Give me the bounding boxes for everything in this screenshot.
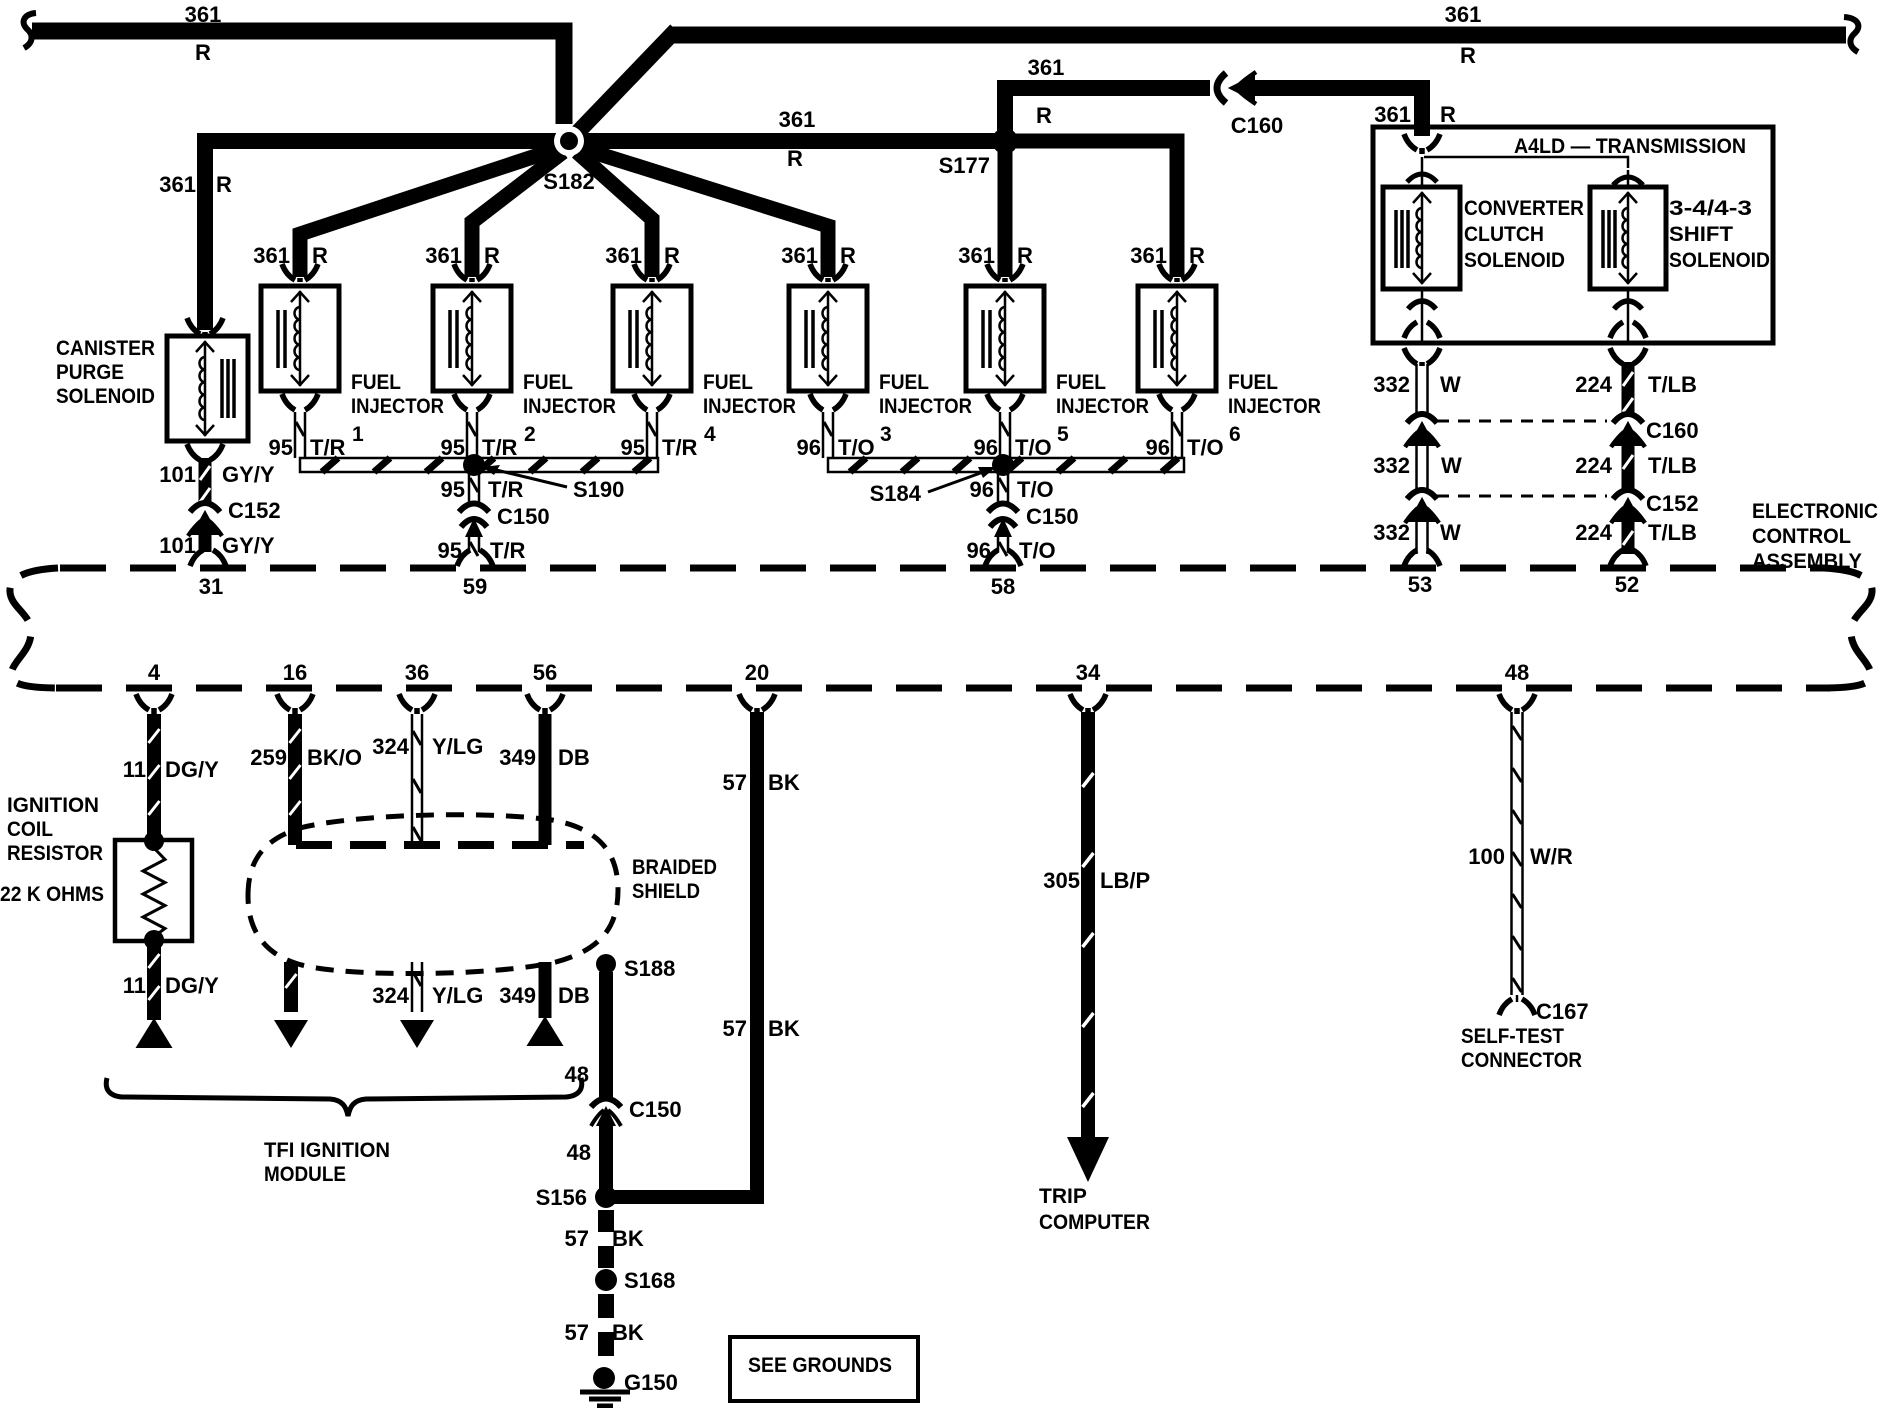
svg-text:T/LB: T/LB <box>1648 453 1697 478</box>
connector pair below converter clutch solenoid <box>1408 301 1436 309</box>
shift solenoid coil <box>1627 192 1630 284</box>
splice S188 <box>596 954 616 974</box>
ground G150 <box>593 1367 615 1389</box>
svg-text:C152: C152 <box>228 498 281 523</box>
connector chevron above fuel injector 3 <box>810 264 846 282</box>
svg-text:C150: C150 <box>629 1097 682 1122</box>
connector chevron above canister purge solenoid <box>187 318 223 336</box>
connector C152 inline right half <box>1613 490 1643 499</box>
svg-text:52: 52 <box>1615 572 1639 597</box>
svg-text:361: 361 <box>1028 55 1065 80</box>
wire break symbol top-left <box>24 13 36 48</box>
svg-text:FUEL: FUEL <box>703 371 753 394</box>
wire 324 Y/LG upper <box>412 714 422 845</box>
svg-text:T/O: T/O <box>1017 477 1054 502</box>
svg-text:SHIELD: SHIELD <box>632 880 700 903</box>
wire 96 T/O below S184 <box>998 472 1008 503</box>
svg-text:48: 48 <box>1505 660 1529 685</box>
svg-text:R: R <box>216 172 232 197</box>
connector chevron below ECA pin 34 <box>1070 694 1106 714</box>
ECA upper dashed boundary <box>60 565 1826 572</box>
connector chevron below fuel injector 3 <box>810 394 846 410</box>
svg-text:3-4/4-3: 3-4/4-3 <box>1669 197 1752 220</box>
svg-text:S156: S156 <box>536 1185 587 1210</box>
svg-text:SELF-TEST: SELF-TEST <box>1461 1025 1564 1048</box>
svg-text:DG/Y: DG/Y <box>165 757 219 782</box>
svg-text:C160: C160 <box>1231 113 1284 138</box>
svg-text:S168: S168 <box>624 1268 675 1293</box>
wire bus 96 T/O injectors 3-5-6 <box>828 458 1184 472</box>
converter clutch solenoid U1 box <box>1383 187 1460 289</box>
connector chevron below A4LD box right <box>1610 348 1646 366</box>
svg-text:S182: S182 <box>543 169 594 194</box>
svg-text:MODULE: MODULE <box>264 1163 346 1186</box>
svg-text:SOLENOID: SOLENOID <box>1464 249 1565 272</box>
svg-text:PURGE: PURGE <box>56 361 124 384</box>
svg-text:SEE GROUNDS: SEE GROUNDS <box>748 1354 892 1377</box>
svg-text:59: 59 <box>463 574 487 599</box>
wire 95 T/R below S190 <box>469 472 479 503</box>
svg-text:BK: BK <box>768 1016 800 1041</box>
TFI ignition module brace <box>106 1078 582 1116</box>
splice S190 <box>463 454 485 476</box>
wire 224 T/LB segment 1 <box>1622 362 1635 413</box>
svg-text:S190: S190 <box>573 477 624 502</box>
svg-text:332: 332 <box>1373 372 1410 397</box>
connector chevron above fuel injector 6 <box>1159 264 1195 282</box>
connector chevron below canister purge solenoid <box>187 444 223 460</box>
connector chevron below ECA pin 48 <box>1499 694 1535 714</box>
svg-text:349: 349 <box>499 745 536 770</box>
svg-text:T/R: T/R <box>310 435 346 460</box>
svg-text:224: 224 <box>1575 453 1612 478</box>
svg-text:96: 96 <box>1146 435 1170 460</box>
svg-text:GY/Y: GY/Y <box>222 533 275 558</box>
svg-text:G150: G150 <box>624 1370 678 1395</box>
dashed tie line C160 <box>1437 420 1607 423</box>
connector C152 canister <box>190 503 220 512</box>
wire 259 arrow below shield <box>284 962 298 1012</box>
wire 332 W segment 1 <box>1417 364 1428 413</box>
svg-text:C167: C167 <box>1536 999 1589 1024</box>
svg-text:IGNITION: IGNITION <box>7 794 99 817</box>
wire 224 T/LB segment 3 <box>1622 521 1635 554</box>
wire 224 T/LB segment 2 <box>1622 445 1635 489</box>
svg-text:C150: C150 <box>497 504 550 529</box>
svg-text:W: W <box>1440 520 1461 545</box>
svg-text:95: 95 <box>269 435 293 460</box>
svg-text:C150: C150 <box>1026 504 1079 529</box>
svg-text:Y/LG: Y/LG <box>432 983 483 1008</box>
connector chevron below fuel injector 5 <box>987 394 1023 410</box>
fuel injector 1 coil <box>299 291 302 386</box>
svg-text:CONNECTOR: CONNECTOR <box>1461 1049 1582 1072</box>
svg-text:T/O: T/O <box>1187 435 1224 460</box>
svg-text:332: 332 <box>1373 453 1410 478</box>
connector chevron above fuel injector 5 <box>987 264 1023 282</box>
SEE GROUNDS box <box>730 1337 918 1401</box>
arrow trip computer <box>1067 1137 1109 1182</box>
canister purge solenoid box <box>167 336 248 441</box>
splice S182 <box>554 126 584 156</box>
svg-text:CANISTER: CANISTER <box>56 337 155 360</box>
wire diagonal from top wire to S182 <box>577 30 676 133</box>
svg-text:324: 324 <box>372 983 409 1008</box>
connector chevron above fuel injector 1 <box>282 264 318 282</box>
svg-text:FUEL: FUEL <box>879 371 929 394</box>
wire 96 T/O drop injector 3 <box>823 412 833 458</box>
wire S177 to fuel injector 6 <box>1013 141 1177 277</box>
svg-text:95: 95 <box>441 435 465 460</box>
svg-text:C152: C152 <box>1646 491 1699 516</box>
fuel injector 4 core lines <box>630 310 637 368</box>
connector chevron above fuel injector 4 <box>634 264 670 282</box>
svg-text:22 K OHMS: 22 K OHMS <box>0 883 104 906</box>
svg-text:101: 101 <box>159 533 196 558</box>
svg-text:T/R: T/R <box>482 435 518 460</box>
connector chevron into ECA pin 59 <box>457 550 493 566</box>
svg-text:BK: BK <box>612 1320 644 1345</box>
svg-text:4: 4 <box>704 423 716 446</box>
svg-text:R: R <box>787 146 803 171</box>
svg-text:31: 31 <box>199 574 223 599</box>
leader line S190 <box>492 469 567 487</box>
svg-text:R: R <box>484 243 500 268</box>
svg-text:224: 224 <box>1575 520 1612 545</box>
ignition coil resistor box <box>115 840 192 941</box>
wire 361 R top-right horizontal <box>672 27 1846 44</box>
svg-text:R: R <box>195 40 211 65</box>
connector pair at A4LD top entry <box>1404 134 1440 154</box>
ECA left brace <box>10 568 58 688</box>
connector chevron below ECA pin 16 <box>277 694 313 714</box>
svg-text:4: 4 <box>148 660 161 685</box>
svg-text:TFI IGNITION: TFI IGNITION <box>264 1139 390 1162</box>
connector chevron below fuel injector 4 <box>634 394 670 410</box>
svg-text:R: R <box>1017 243 1033 268</box>
svg-text:S184: S184 <box>870 481 922 506</box>
svg-text:INJECTOR: INJECTOR <box>1228 395 1321 418</box>
svg-text:SOLENOID: SOLENOID <box>1669 249 1770 272</box>
svg-text:48: 48 <box>567 1140 591 1165</box>
connector chevron below fuel injector 1 <box>282 394 318 410</box>
svg-text:LB/P: LB/P <box>1100 868 1150 893</box>
svg-text:36: 36 <box>405 660 429 685</box>
connector chevron into ECA pin 31 <box>190 550 226 566</box>
wire 57 BK S156 to S168 dashed <box>598 1210 614 1268</box>
fuel injector 1 box <box>261 286 339 391</box>
wire 324 Y/LG below shield <box>412 962 422 1012</box>
svg-text:95: 95 <box>441 477 465 502</box>
fuel injector 5 coil <box>1004 291 1007 386</box>
connector C160 inline left half <box>1407 414 1437 423</box>
splice S156 <box>595 1186 617 1208</box>
svg-text:349: 349 <box>499 983 536 1008</box>
wire 95 T/R into pin 59 <box>469 537 479 552</box>
svg-text:T/R: T/R <box>490 538 526 563</box>
resistor junction dot top <box>144 831 164 851</box>
svg-text:T/O: T/O <box>1019 538 1056 563</box>
connector C150 below S184 <box>988 504 1018 513</box>
shift solenoid core lines <box>1603 210 1615 268</box>
svg-text:RESISTOR: RESISTOR <box>7 842 103 865</box>
svg-text:FUEL: FUEL <box>523 371 573 394</box>
svg-text:S177: S177 <box>939 153 990 178</box>
svg-text:BK/O: BK/O <box>307 745 362 770</box>
fuel injector 6 box <box>1138 286 1216 391</box>
svg-text:95: 95 <box>621 435 645 460</box>
wire S177 up and right to C160 <box>1005 88 1210 146</box>
svg-text:11: 11 <box>123 973 146 998</box>
fuel injector 4 box <box>613 286 691 391</box>
svg-text:INJECTOR: INJECTOR <box>523 395 616 418</box>
splice S168 <box>595 1269 617 1291</box>
svg-text:58: 58 <box>991 574 1015 599</box>
svg-text:COIL: COIL <box>7 818 53 841</box>
fuel injector 6 coil <box>1176 291 1179 386</box>
svg-text:A4LD — TRANSMISSION: A4LD — TRANSMISSION <box>1514 135 1746 158</box>
svg-text:GY/Y: GY/Y <box>222 462 275 487</box>
svg-text:5: 5 <box>1057 423 1069 446</box>
connector chevron below ECA pin 36 <box>399 694 435 714</box>
svg-text:R: R <box>312 243 328 268</box>
wire 48 from S188 to C150 <box>599 972 613 1098</box>
svg-text:S188: S188 <box>624 956 675 981</box>
fuel injector 3 core lines <box>806 310 813 368</box>
wire 96 T/O into pin 58 <box>998 537 1008 552</box>
wire S182 to canister purge (left branch) <box>205 141 556 330</box>
fuel injector 5 core lines <box>983 310 990 368</box>
fuel injector 3 coil <box>827 291 830 386</box>
svg-text:INJECTOR: INJECTOR <box>351 395 444 418</box>
canister purge solenoid coil <box>204 341 207 436</box>
svg-text:SOLENOID: SOLENOID <box>56 385 155 408</box>
ECA right brace <box>1824 568 1872 688</box>
svg-text:96: 96 <box>974 435 998 460</box>
canister purge solenoid core lines <box>222 359 234 418</box>
wire 95 T/R drop injector 4 <box>647 412 657 458</box>
svg-text:FUEL: FUEL <box>1228 371 1278 394</box>
3-4/4-3 shift solenoid U2 box <box>1590 187 1666 289</box>
svg-text:100: 100 <box>1468 844 1505 869</box>
svg-text:CLUTCH: CLUTCH <box>1464 223 1544 246</box>
svg-text:57: 57 <box>565 1226 589 1251</box>
wire branch to shift solenoid <box>1424 157 1628 168</box>
braided shield dashed outline <box>248 815 618 974</box>
wire 349 DB below shield <box>539 962 552 1018</box>
ECA lower dashed boundary <box>56 685 1830 692</box>
svg-text:T/LB: T/LB <box>1648 372 1697 397</box>
wire 332 W segment 2 <box>1417 445 1428 489</box>
connector chevron into ECA pin 58 <box>985 550 1021 566</box>
svg-text:324: 324 <box>372 734 409 759</box>
fuel injector 6 core lines <box>1155 310 1162 368</box>
connector chevron below fuel injector 2 <box>454 394 490 410</box>
svg-text:R: R <box>1440 102 1456 127</box>
svg-text:R: R <box>840 243 856 268</box>
svg-text:224: 224 <box>1575 372 1612 397</box>
connector chevron below fuel injector 6 <box>1159 394 1195 410</box>
svg-text:ELECTRONIC: ELECTRONIC <box>1752 500 1878 523</box>
svg-text:CONTROL: CONTROL <box>1752 525 1851 548</box>
svg-text:101: 101 <box>159 462 196 487</box>
leader line S184 <box>928 471 986 492</box>
wire 332 W segment 3 <box>1417 521 1428 554</box>
wire 48 from C150 to S156 <box>599 1126 613 1196</box>
A4LD transmission box <box>1373 127 1773 343</box>
svg-text:T/R: T/R <box>662 435 698 460</box>
svg-text:57: 57 <box>723 1016 747 1041</box>
wire 101 GY/Y segment 2 <box>199 534 212 552</box>
svg-text:96: 96 <box>970 477 994 502</box>
connector chevron into ECA pin 52 <box>1610 550 1646 566</box>
wire 57 BK S168 to G150 dashed <box>598 1294 614 1366</box>
svg-text:96: 96 <box>797 435 821 460</box>
svg-text:W: W <box>1440 372 1461 397</box>
wire break symbol top-right <box>1844 17 1858 52</box>
svg-text:20: 20 <box>745 660 769 685</box>
connector chevron below ECA pin 56 <box>527 694 563 714</box>
terminal triangle 349 DB <box>527 1016 564 1046</box>
wire S182 to fuel injector 3 <box>580 148 828 277</box>
fuel injector 1 core lines <box>278 310 285 368</box>
connector chevron into ECA pin 53 <box>1404 550 1440 566</box>
connector C152 inline left half <box>1407 490 1437 499</box>
dashed tie line C152 <box>1437 495 1607 498</box>
wire 95 T/R drop injector 1 <box>295 412 305 458</box>
svg-text:259: 259 <box>250 745 287 770</box>
braided shield inner rim dashed <box>296 841 584 849</box>
connector C160 inline (top) <box>1217 73 1226 103</box>
svg-text:34: 34 <box>1076 660 1101 685</box>
svg-text:332: 332 <box>1373 520 1410 545</box>
svg-text:BK: BK <box>768 770 800 795</box>
svg-text:DB: DB <box>558 983 590 1008</box>
fuel injector 2 coil <box>471 291 474 386</box>
svg-text:R: R <box>1189 243 1205 268</box>
svg-text:305: 305 <box>1043 868 1080 893</box>
fuel injector 2 box <box>433 286 511 391</box>
connector C150 TFI <box>591 1099 621 1108</box>
connector C160 inline right half <box>1613 414 1643 423</box>
svg-text:C160: C160 <box>1646 418 1699 443</box>
fuel injector 5 box <box>966 286 1044 391</box>
svg-text:FUEL: FUEL <box>1056 371 1106 394</box>
fuel injector 4 coil <box>651 291 654 386</box>
svg-text:361: 361 <box>185 2 222 27</box>
wire C160 to A4LD transmission <box>1248 88 1422 136</box>
svg-text:T/R: T/R <box>488 477 524 502</box>
wire 101 GY/Y segment 1 <box>199 458 212 502</box>
svg-text:COMPUTER: COMPUTER <box>1039 1211 1150 1234</box>
wire 100 W/R self-test <box>1512 712 1523 995</box>
wire S177 down to fuel injector 5 <box>998 141 1013 277</box>
connector chevron above fuel injector 2 <box>454 264 490 282</box>
wire 305 LB/P trip computer <box>1081 712 1095 1140</box>
converter clutch solenoid core lines <box>1396 210 1408 268</box>
connector chevron below ECA pin 20 <box>739 694 775 714</box>
svg-text:361: 361 <box>1374 102 1411 127</box>
wire 96 T/O drop injector 5 <box>1000 412 1010 458</box>
wire S182 to S177 (right branch) <box>582 133 1005 149</box>
svg-text:R: R <box>1460 43 1476 68</box>
wire 361 R top-left horizontal <box>32 31 564 124</box>
svg-text:6: 6 <box>1229 423 1241 446</box>
svg-text:56: 56 <box>533 660 557 685</box>
resistor zigzag <box>143 848 165 937</box>
svg-text:DB: DB <box>558 745 590 770</box>
svg-text:BRAIDED: BRAIDED <box>632 856 717 879</box>
connector pair below shift solenoid <box>1614 301 1642 309</box>
svg-text:R: R <box>1036 103 1052 128</box>
svg-text:T/O: T/O <box>1015 435 1052 460</box>
svg-text:57: 57 <box>565 1320 589 1345</box>
wire 349 DB upper <box>539 714 552 845</box>
svg-text:361: 361 <box>159 172 196 197</box>
svg-text:INJECTOR: INJECTOR <box>1056 395 1149 418</box>
svg-text:INJECTOR: INJECTOR <box>879 395 972 418</box>
wire 11 DG/Y lower <box>147 941 161 1020</box>
terminal triangle DG/Y <box>136 1018 173 1048</box>
svg-text:DG/Y: DG/Y <box>165 973 219 998</box>
splice S177 <box>992 128 1018 154</box>
svg-text:CONVERTER: CONVERTER <box>1464 197 1584 220</box>
svg-text:TRIP: TRIP <box>1039 1185 1087 1208</box>
svg-text:2: 2 <box>524 423 536 446</box>
svg-text:16: 16 <box>283 660 307 685</box>
svg-text:3: 3 <box>880 423 892 446</box>
connector C167 <box>1499 999 1535 1015</box>
wire 11 DG/Y upper <box>147 714 161 838</box>
splice S184 <box>992 454 1014 476</box>
wire bus 95 T/R injectors 1-2-4 <box>300 458 658 472</box>
arrow 324 below shield <box>400 1020 434 1048</box>
svg-text:Y/LG: Y/LG <box>432 734 483 759</box>
svg-text:361: 361 <box>1445 2 1482 27</box>
connector chevron below ECA pin 4 <box>136 694 172 714</box>
svg-text:T/O: T/O <box>838 435 875 460</box>
svg-text:FUEL: FUEL <box>351 371 401 394</box>
wire 259 BK/O <box>288 714 302 845</box>
converter clutch solenoid coil <box>1421 192 1424 284</box>
svg-text:11: 11 <box>123 757 146 782</box>
connector C150 below S190 <box>459 504 489 513</box>
wire 57 BK from pin 20 <box>614 712 757 1197</box>
fuel injector 2 core lines <box>450 310 457 368</box>
wire S182 to fuel injector 2 <box>472 152 563 277</box>
resistor junction dot bottom <box>144 930 164 950</box>
svg-text:53: 53 <box>1408 572 1432 597</box>
svg-text:361: 361 <box>779 107 816 132</box>
svg-text:SHIFT: SHIFT <box>1669 223 1733 246</box>
svg-text:INJECTOR: INJECTOR <box>703 395 796 418</box>
wire S182 to fuel injector 1 <box>300 148 560 277</box>
connector chevron below A4LD box left <box>1404 348 1440 366</box>
wire S182 to fuel injector 4 <box>577 152 652 277</box>
svg-text:R: R <box>664 243 680 268</box>
wire 95 T/R drop injector 2 <box>467 412 477 458</box>
svg-text:W/R: W/R <box>1530 844 1573 869</box>
svg-text:T/LB: T/LB <box>1648 520 1697 545</box>
svg-text:BK: BK <box>612 1226 644 1251</box>
svg-text:1: 1 <box>352 423 364 446</box>
svg-text:48: 48 <box>565 1062 589 1087</box>
svg-text:W: W <box>1441 453 1462 478</box>
wire 96 T/O drop injector 6 <box>1172 412 1182 458</box>
svg-text:57: 57 <box>723 770 747 795</box>
fuel injector 3 box <box>789 286 867 391</box>
